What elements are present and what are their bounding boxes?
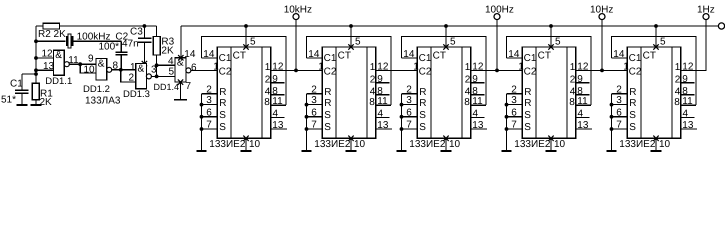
counter DD2 box [217,47,270,138]
svg-text:8: 8 [369,97,375,108]
svg-text:6: 6 [206,107,212,118]
svg-text:7: 7 [206,120,212,131]
svg-text:14: 14 [308,49,320,60]
label DD5 133IE2 [514,139,551,150]
wire R-S ground bus DD5 [505,84,523,151]
crystal ZQ1 100kHz [36,32,121,48]
svg-text:CT: CT [643,51,656,62]
resistor R2 [38,23,66,40]
svg-text:R: R [524,98,531,109]
svg-text:14: 14 [613,49,625,60]
wire R-S ground bus DD6 [610,84,628,151]
svg-text:133ЛА3: 133ЛА3 [85,96,121,107]
wire feedback pin14-pin11 DD3 [307,37,392,108]
svg-text:13: 13 [272,120,284,131]
svg-text:2: 2 [465,74,471,85]
ground (DD6 R-S) [607,150,617,152]
svg-text:13: 13 [577,120,589,131]
svg-text:10: 10 [249,139,261,150]
svg-text:2: 2 [370,74,376,85]
svg-text:10: 10 [554,139,566,150]
svg-text:3: 3 [406,95,412,106]
wire node C [112,68,136,82]
svg-text:R: R [629,98,636,109]
svg-text:R: R [419,98,426,109]
svg-text:8: 8 [569,97,575,108]
capacitor C2 [99,32,129,70]
svg-text:10kHz: 10kHz [284,5,312,16]
outputs DD4 [464,62,487,132]
svg-text:S: S [419,122,426,133]
pin 1 label DD2 [213,62,219,73]
svg-text:C1: C1 [419,53,432,64]
wire feedback pin14-pin11 DD5 [507,37,592,108]
svg-text:8: 8 [377,86,383,97]
svg-text:C2: C2 [629,67,642,78]
svg-text:DD1.2: DD1.2 [83,84,110,95]
label DD1.4 [154,82,180,92]
svg-text:7: 7 [511,120,517,131]
svg-text:S: S [219,122,226,133]
svg-text:7: 7 [311,120,317,131]
svg-text:1: 1 [675,62,681,73]
svg-text:2: 2 [129,73,135,84]
svg-text:3: 3 [616,95,622,106]
ground pin 10 DD4 [440,136,460,151]
svg-text:10: 10 [354,139,366,150]
svg-text:C2: C2 [324,67,337,78]
wire DD2 out [271,69,323,73]
svg-text:7: 7 [616,120,622,131]
svg-text:2: 2 [206,84,212,95]
wire DD5 out [576,69,628,73]
terminal 100Hz [485,5,514,71]
power rail [181,25,719,27]
svg-text:S: S [219,110,226,121]
svg-text:2: 2 [616,84,622,95]
svg-text:133ИЕ2: 133ИЕ2 [409,139,446,150]
svg-text:4: 4 [578,108,584,119]
counter DD6 box [627,47,681,138]
ground pin 7 (DD1) [174,79,192,99]
svg-text:C1: C1 [524,53,537,64]
wire R-S ground bus DD4 [400,84,418,151]
resistor R3 [153,26,174,78]
svg-text:DD1.3: DD1.3 [123,89,150,100]
svg-text:4: 4 [370,86,376,97]
svg-text:5: 5 [555,37,561,48]
ground pin 10 DD5 [545,136,565,151]
svg-text:&: & [55,50,62,61]
ground pin 10 DD2 [240,136,260,151]
svg-text:8: 8 [264,97,270,108]
svg-text:&: & [98,58,105,69]
svg-text:133ИЕ2: 133ИЕ2 [619,139,656,150]
label DD6 133IE2 [619,139,656,150]
svg-text:R2 2K: R2 2K [38,29,66,40]
label DD2 133IE2 [209,139,246,150]
svg-text:13: 13 [43,61,55,72]
gate DD1.3 [129,62,158,89]
svg-text:CT: CT [233,51,246,62]
svg-text:9: 9 [88,54,94,65]
svg-text:S: S [419,110,426,121]
ground (C1) [16,93,27,105]
ground pin 10 DD3 [345,136,365,151]
svg-text:2: 2 [570,74,576,85]
svg-text:5: 5 [450,37,456,48]
power pin 5 DD3 [348,24,361,50]
svg-text:1: 1 [465,62,471,73]
svg-text:100*: 100* [99,42,120,53]
svg-text:9: 9 [577,74,583,85]
svg-text:R: R [629,87,636,98]
svg-text:13: 13 [377,120,389,131]
svg-text:1: 1 [370,62,376,73]
svg-text:CT: CT [338,51,351,62]
svg-text:C2: C2 [219,67,232,78]
power pin 5 DD4 [443,24,456,50]
svg-text:4: 4 [273,108,279,119]
svg-text:1: 1 [130,62,136,73]
power pin 14 (DD1) [178,26,196,60]
svg-text:14: 14 [184,49,196,60]
ground (DD2 R-S) [197,150,207,152]
svg-text:R: R [324,98,331,109]
wire DD6 out [681,20,706,71]
svg-text:11: 11 [577,96,588,107]
svg-text:11: 11 [272,96,283,107]
svg-text:2: 2 [511,84,517,95]
svg-text:5: 5 [355,37,361,48]
svg-text:S: S [524,122,531,133]
counter DD5 box [522,47,576,138]
svg-text:14: 14 [403,49,415,60]
svg-text:100Hz: 100Hz [485,5,514,16]
svg-text:6: 6 [406,107,412,118]
svg-text:11: 11 [377,96,388,107]
svg-text:7: 7 [186,81,192,92]
svg-text:47n: 47n [122,39,139,50]
svg-text:8: 8 [464,97,470,108]
svg-text:4: 4 [465,86,471,97]
wire node-A bus [34,26,38,84]
svg-text:&: & [138,63,145,74]
svg-text:4: 4 [675,86,681,97]
svg-text:5: 5 [660,37,666,48]
svg-text:R: R [324,87,331,98]
label DD1.1 [45,76,72,87]
svg-text:6: 6 [191,63,197,74]
svg-text:3: 3 [511,95,517,106]
svg-text:8: 8 [472,86,478,97]
svg-text:1Hz: 1Hz [697,5,715,16]
label DD4 133IE2 [409,139,446,150]
capacitor C1 [1,74,36,106]
svg-text:51*: 51* [1,95,16,106]
svg-text:9: 9 [682,74,688,85]
svg-text:DD1.1: DD1.1 [45,76,72,87]
svg-text:DD1.4: DD1.4 [154,82,180,92]
svg-text:1: 1 [213,62,219,73]
power pin 5 DD6 [653,24,666,50]
pin 1 label DD3 [318,62,324,73]
gate DD1.4 [168,56,197,82]
svg-text:9: 9 [377,74,383,85]
svg-text:13: 13 [472,120,484,131]
svg-text:13: 13 [682,120,694,131]
svg-text:4: 4 [570,86,576,97]
wire DD1.4 to DD2 [191,69,217,71]
svg-text:7: 7 [406,120,412,131]
pin 1 label DD5 [518,62,524,73]
svg-text:C1: C1 [324,53,337,64]
svg-text:2: 2 [265,74,271,85]
wire feedback pin14-pin11 DD2 [202,37,287,108]
svg-text:6: 6 [311,107,317,118]
wire node D [151,65,175,76]
svg-text:4: 4 [168,56,174,67]
svg-text:4: 4 [473,108,479,119]
svg-text:8: 8 [674,97,680,108]
svg-text:9: 9 [272,74,278,85]
ground pin 10 DD6 [650,136,670,151]
svg-text:S: S [629,122,636,133]
label DD3 133IE2 [314,139,351,150]
svg-text:CT: CT [433,51,446,62]
svg-text:11: 11 [472,96,483,107]
wire node B [69,62,96,73]
label DD1.3 [123,89,150,100]
svg-text:R: R [219,87,226,98]
svg-text:4: 4 [378,108,384,119]
ground (R1) [30,100,41,105]
svg-text:3: 3 [206,95,212,106]
svg-text:133ИЕ2: 133ИЕ2 [209,139,246,150]
svg-text:10: 10 [449,139,461,150]
label DD1.2 [83,84,110,95]
svg-text:14: 14 [203,49,215,60]
svg-text:C3: C3 [130,27,143,38]
svg-text:10: 10 [659,139,671,150]
svg-text:4: 4 [683,108,689,119]
wire DD3 out [376,69,418,71]
svg-text:C2: C2 [524,67,537,78]
capacitor C3 [122,24,152,66]
svg-text:3: 3 [151,65,157,76]
svg-text:8: 8 [682,86,688,97]
power terminal [718,23,724,29]
terminal 10Hz [590,5,613,71]
svg-text:R: R [419,87,426,98]
svg-text:10Hz: 10Hz [590,5,613,16]
svg-text:C1: C1 [10,78,23,89]
svg-text:S: S [629,110,636,121]
outputs DD3 [369,62,392,132]
ground (DD4 R-S) [397,150,407,152]
svg-text:12: 12 [42,49,54,60]
svg-text:2K: 2K [40,97,53,108]
ground (DD3 R-S) [302,150,312,152]
ground (DD5 R-S) [502,150,512,152]
svg-text:R: R [219,98,226,109]
pin 1 label DD6 [623,62,629,73]
resistor R1 [32,83,53,108]
svg-text:2: 2 [311,84,317,95]
wire R2 feed [36,25,157,27]
svg-text:R: R [524,87,531,98]
svg-text:5: 5 [169,67,175,78]
svg-text:S: S [524,110,531,121]
svg-text:C1: C1 [219,53,232,64]
wire feedback pin14-pin11 DD4 [402,37,487,108]
terminal 10kHz [284,5,312,71]
svg-text:1: 1 [570,62,576,73]
svg-text:133ИЕ2: 133ИЕ2 [314,139,351,150]
svg-text:5: 5 [250,37,256,48]
svg-text:2: 2 [675,74,681,85]
outputs DD6 [674,62,697,132]
svg-text:2K: 2K [161,46,174,57]
svg-text:133ИЕ2: 133ИЕ2 [514,139,551,150]
svg-text:6: 6 [511,107,517,118]
counter DD3 box [322,47,376,138]
outputs DD2 [264,62,287,132]
svg-text:11: 11 [682,96,693,107]
svg-text:8: 8 [577,86,583,97]
svg-text:S: S [324,122,331,133]
power pin 5 DD2 [243,24,256,50]
wire DD4 out [471,69,523,73]
svg-text:C1: C1 [629,53,642,64]
power pin 5 DD5 [548,24,561,50]
svg-text:6: 6 [616,107,622,118]
svg-text:10: 10 [84,65,96,76]
svg-text:8: 8 [272,86,278,97]
wire R-S ground bus DD2 [200,84,218,151]
svg-text:CT: CT [538,51,551,62]
svg-text:C2: C2 [419,67,432,78]
gate DD1.2 [84,54,119,81]
terminal 1Hz [697,5,715,20]
svg-text:1: 1 [265,62,271,73]
svg-text:S: S [324,110,331,121]
svg-text:4: 4 [265,86,271,97]
svg-text:14: 14 [508,49,520,60]
wire feedback pin14-pin11 DD6 [612,37,697,108]
svg-text:9: 9 [472,74,478,85]
svg-text:3: 3 [311,95,317,106]
svg-text:2: 2 [406,84,412,95]
counter DD4 box [417,47,471,138]
label 133LA3 [85,96,121,107]
gate DD1.1 [54,50,80,75]
gate DD1.1 inputs [36,49,55,73]
pin 1 label DD4 [413,62,419,73]
wire R-S ground bus DD3 [305,84,323,151]
outputs DD5 [569,62,592,132]
